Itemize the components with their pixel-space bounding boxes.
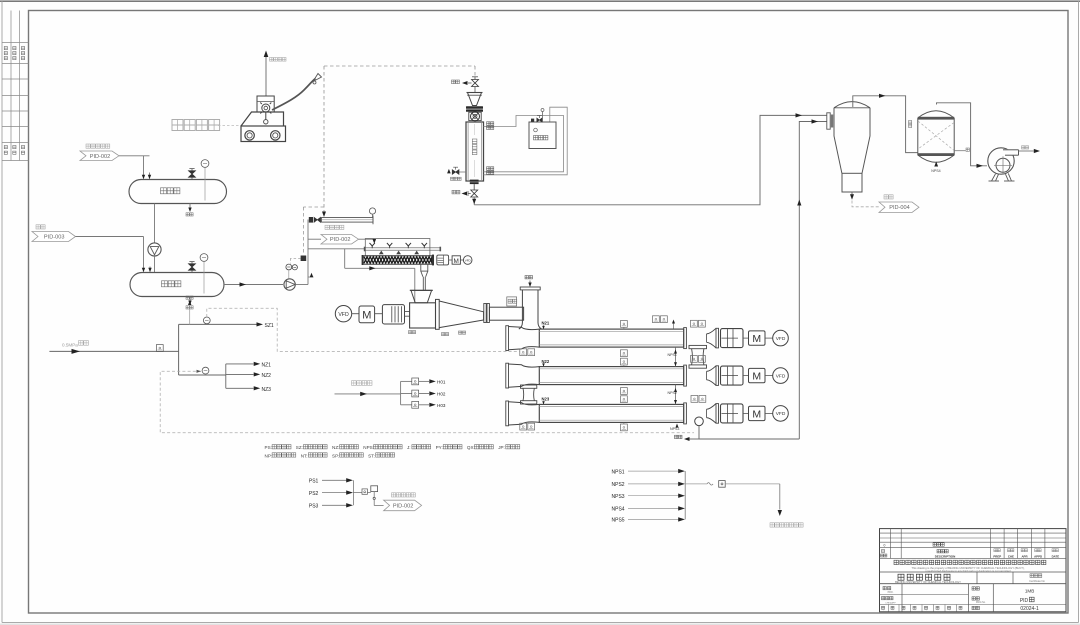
svg-text:CHE: CHE bbox=[1008, 555, 1014, 559]
discharge pipe to riser bbox=[489, 307, 523, 320]
control cabinet bbox=[529, 122, 556, 149]
column vent cluster bbox=[459, 171, 466, 173]
svg-text:VFD: VFD bbox=[776, 411, 786, 417]
V1 drain bbox=[189, 204, 191, 209]
condensate line into vessel V1 bbox=[119, 155, 150, 157]
blow line riser bbox=[521, 290, 523, 323]
boiler branch H01 bbox=[401, 380, 412, 382]
svg-text:ST:: ST: bbox=[368, 453, 375, 458]
extruder drain tags bbox=[409, 331, 412, 334]
svg-text:PID-003: PID-003 bbox=[44, 235, 65, 241]
svg-text:PS2: PS2 bbox=[309, 491, 319, 497]
R2 to R3 connector capsule bbox=[521, 385, 537, 388]
svg-text:QX:: QX: bbox=[467, 445, 475, 450]
flag PID-003 feed bbox=[32, 232, 76, 242]
svg-text:PS3: PS3 bbox=[309, 504, 319, 510]
reactor R3 inlet bell bbox=[509, 402, 540, 405]
cyclone solids outlet bbox=[851, 192, 853, 197]
column outer loop to control box bbox=[484, 107, 568, 175]
title block bottom small cells bbox=[888, 605, 890, 612]
reactor R3 tube bbox=[539, 404, 683, 422]
boiler branch H03 bbox=[401, 404, 412, 406]
R1 left instrument pair bbox=[520, 349, 527, 356]
header support nozzles bbox=[379, 251, 384, 255]
reactor R1 motor M bbox=[749, 331, 766, 345]
svg-text:1MB: 1MB bbox=[1025, 589, 1034, 594]
svg-text:02024-1: 02024-1 bbox=[1020, 606, 1039, 612]
reactor R1 outlet bell bbox=[707, 328, 717, 348]
blowdown line to cyclone bbox=[474, 115, 827, 204]
control box top fittings bbox=[531, 119, 534, 122]
svg-text:M: M bbox=[752, 371, 761, 383]
belt end instrument bbox=[369, 208, 375, 214]
scrubber bottom outlet bbox=[934, 162, 938, 167]
PS logic to flag bbox=[353, 492, 362, 494]
svg-text:VFD: VFD bbox=[465, 259, 472, 263]
R1 vent nozzle bbox=[673, 323, 675, 329]
R3 instrument tags bbox=[691, 396, 698, 403]
svg-text:H03: H03 bbox=[437, 403, 446, 408]
svg-text:NPS5: NPS5 bbox=[612, 518, 625, 524]
V2 level instrument bbox=[203, 261, 205, 294]
svg-text:SZ:: SZ: bbox=[296, 445, 303, 450]
cyclone gas outlet bbox=[853, 96, 918, 153]
extruder feed hopper bbox=[411, 290, 432, 302]
reactor R3 outlet plate bbox=[684, 403, 687, 424]
P2 instruments bbox=[286, 264, 292, 270]
svg-text:PID-002: PID-002 bbox=[90, 154, 111, 160]
reactor R2 motor M bbox=[749, 368, 766, 382]
svg-text:N22: N22 bbox=[542, 359, 550, 364]
svg-text:PY:: PY: bbox=[436, 445, 443, 450]
reactor R1 gearbox bbox=[721, 329, 744, 348]
belt feeder with magnetic separator bbox=[309, 217, 313, 223]
svg-text:PID-004: PID-004 bbox=[889, 205, 910, 211]
scrubber right nozzle bbox=[954, 150, 965, 152]
svg-text:DATE: DATE bbox=[1052, 555, 1060, 559]
svg-text:VFD: VFD bbox=[776, 373, 786, 379]
reactor R2 VFD bbox=[773, 368, 789, 384]
loader cable arm bbox=[272, 79, 316, 111]
R1 to R2 connector capsule bbox=[689, 345, 707, 348]
reactor R2 outlet bell bbox=[707, 366, 717, 386]
svg-text:PRO.: PRO. bbox=[888, 591, 894, 594]
svg-text:VFD: VFD bbox=[776, 336, 786, 342]
dilution water pump P2 bbox=[284, 279, 295, 290]
svg-text:NT:: NT: bbox=[301, 453, 308, 458]
svg-text:M: M bbox=[362, 310, 371, 322]
title block company band bbox=[976, 572, 978, 584]
line from flag to spray chamber bbox=[359, 238, 375, 240]
reactor R3 VFD bbox=[773, 406, 789, 422]
extruder motor M bbox=[359, 306, 375, 323]
V1 top valve bbox=[191, 177, 193, 180]
column steam inlet loop bbox=[484, 116, 564, 172]
instrument signal dashed bbox=[207, 308, 520, 351]
fan outlet bbox=[1019, 150, 1034, 152]
svg-text:NZ3: NZ3 bbox=[262, 387, 272, 393]
truck wheels bbox=[245, 131, 254, 140]
scrubber overhead to fan bbox=[937, 103, 988, 166]
exhaust fan bbox=[988, 148, 1014, 174]
svg-text:N23: N23 bbox=[542, 396, 550, 401]
svg-text:NZ2: NZ2 bbox=[262, 373, 272, 379]
title block property statement bbox=[894, 560, 898, 564]
auger VFD bbox=[463, 256, 472, 265]
reactor R1 VFD bbox=[773, 330, 789, 346]
spray header pipe bbox=[365, 247, 441, 249]
V1 level instrument bbox=[204, 167, 206, 201]
reactor R3 gearbox bbox=[721, 404, 744, 423]
svg-text:NP:: NP: bbox=[265, 453, 273, 458]
spray chamber enclosure bbox=[365, 239, 430, 256]
svg-text:NZ:: NZ: bbox=[332, 445, 339, 450]
svg-text:NPS3: NPS3 bbox=[612, 494, 625, 500]
flag PID-002 interlock bbox=[384, 500, 422, 511]
svg-text:H02: H02 bbox=[437, 392, 446, 397]
svg-text:VFD: VFD bbox=[338, 312, 349, 318]
off-page flag PID-002 condensate bbox=[80, 151, 119, 161]
blow valve bbox=[473, 184, 475, 190]
reactor discharge riser to cyclone bbox=[799, 122, 827, 440]
svg-text:PID-002: PID-002 bbox=[393, 503, 414, 509]
truck loader gear bbox=[262, 104, 270, 112]
column feed hopper bbox=[468, 93, 482, 106]
reactor R2 inlet bell bbox=[509, 364, 540, 367]
feed line into vessel V2 bbox=[76, 236, 144, 238]
steam header tee bbox=[178, 324, 180, 375]
R1 instrument tags bbox=[621, 321, 628, 328]
svg-text:PREP: PREP bbox=[993, 555, 1001, 559]
boiler branch H02 bbox=[401, 393, 412, 395]
dashed solids transport line from truck bbox=[323, 66, 325, 213]
SZ1 branch bbox=[179, 323, 257, 325]
screw conveyor auger bbox=[363, 256, 432, 264]
spray water feed line bbox=[308, 248, 365, 250]
NPS2 condensate nozzle R2-R3 bbox=[675, 385, 677, 405]
svg-text:DESCRIPTION: DESCRIPTION bbox=[935, 554, 956, 558]
svg-text:M: M bbox=[752, 333, 761, 345]
dilution water line to flag bbox=[308, 238, 321, 240]
extruder feed box bbox=[410, 303, 436, 328]
solenoid valve on dashed line bbox=[301, 256, 307, 262]
reactor R2 outlet plate bbox=[684, 365, 687, 386]
extruder VFD bbox=[335, 306, 351, 322]
R3 discharge rotary valve bbox=[695, 417, 704, 426]
svg-text:0.5MPa: 0.5MPa bbox=[62, 342, 78, 347]
extruder cone barrel bbox=[439, 301, 483, 328]
svg-text:SZ1: SZ1 bbox=[265, 323, 274, 329]
svg-text:NPS:: NPS: bbox=[363, 445, 374, 450]
extruder gearbox bbox=[382, 305, 404, 324]
R2 instrument tags bbox=[621, 350, 628, 357]
vessel V2 dilution tank bbox=[130, 273, 224, 297]
reactor R1 tube bbox=[539, 329, 683, 347]
extruder flange plate bbox=[436, 299, 440, 329]
vent arrow to corn field bbox=[265, 56, 267, 96]
svg-text:APPD: APPD bbox=[1034, 555, 1042, 559]
V2 top valve bbox=[191, 270, 193, 273]
branch to extruder feed box bbox=[344, 249, 346, 268]
long dashed signal line bbox=[160, 371, 694, 433]
svg-text:N21: N21 bbox=[542, 320, 550, 325]
svg-text:PID-002: PID-002 bbox=[330, 237, 351, 243]
svg-text:M: M bbox=[454, 258, 459, 265]
vessel V1 storage tank bbox=[129, 180, 227, 204]
reactor R2 gearbox bbox=[721, 366, 744, 385]
dashed branch to weigh valve bbox=[303, 206, 324, 208]
svg-text:APR: APR bbox=[1021, 555, 1028, 559]
auger discharge chute bbox=[421, 264, 428, 271]
column bottom flanges bbox=[470, 180, 479, 182]
svg-text:NPS2: NPS2 bbox=[612, 482, 625, 488]
svg-text:CHK&APP: CHK&APP bbox=[885, 601, 896, 604]
svg-text:NPS1: NPS1 bbox=[612, 469, 625, 475]
svg-text:H01: H01 bbox=[437, 380, 446, 385]
to electric boiler label bbox=[352, 381, 357, 386]
title block lower grid bbox=[901, 584, 903, 612]
auger motor M bbox=[452, 256, 460, 264]
extruder discharge flanges bbox=[484, 304, 486, 323]
transfer pump P1 bbox=[154, 204, 156, 244]
svg-text:Certificate No: Certificate No bbox=[1029, 579, 1045, 583]
riser top steam arrow bbox=[529, 281, 531, 286]
P2 discharge riser bbox=[295, 284, 308, 286]
steam explosion column body bbox=[466, 122, 484, 181]
svg-text:NPS4: NPS4 bbox=[612, 507, 625, 513]
reactor R1 inlet bell bbox=[509, 327, 540, 330]
svg-text:M: M bbox=[752, 408, 761, 420]
svg-text:PS:: PS: bbox=[265, 445, 272, 450]
title block middle cells bbox=[972, 587, 975, 590]
NZ branch bbox=[179, 374, 226, 376]
fan legs bbox=[992, 173, 1012, 181]
NPS collector to condensate header bbox=[685, 483, 707, 485]
svg-text:SP:: SP: bbox=[332, 453, 339, 458]
spray nozzles bbox=[370, 243, 375, 248]
title block header row bbox=[882, 550, 885, 553]
svg-text:0: 0 bbox=[884, 544, 886, 548]
feed isolation valve bbox=[472, 80, 479, 87]
scrubber column bbox=[917, 118, 919, 155]
cyclone inlet flange bbox=[827, 113, 830, 129]
svg-text:PS1: PS1 bbox=[309, 479, 319, 485]
svg-text:NPS4: NPS4 bbox=[931, 169, 940, 173]
svg-text:DWG No.: DWG No. bbox=[976, 602, 986, 604]
svg-text:unauthorized disclosure to any: unauthorized disclosure to any third par… bbox=[925, 569, 1011, 573]
extruder instrument tag bbox=[507, 297, 517, 306]
title block left cells bbox=[883, 587, 886, 590]
svg-text:PID: PID bbox=[1020, 598, 1029, 604]
V2 outlet line bbox=[224, 284, 283, 286]
title block bbox=[880, 529, 1067, 612]
svg-text:BEIJING UNIVERSITY OF CHEMICAL: BEIJING UNIVERSITY OF CHEMICAL TECHNOLOG… bbox=[895, 580, 961, 584]
column top flange stack bbox=[466, 106, 483, 109]
vent stub bbox=[189, 304, 191, 325]
sheet outer border bbox=[0, 0, 1080, 2]
svg-text:J:: J: bbox=[407, 445, 411, 450]
flag PID-004 solids out bbox=[879, 202, 919, 213]
corn stalk delivery truck bbox=[241, 96, 286, 142]
check valve branch bbox=[308, 276, 313, 278]
R3 discharge line bbox=[698, 426, 700, 439]
svg-text:NZ1: NZ1 bbox=[262, 362, 272, 368]
svg-text:JP:: JP: bbox=[498, 445, 505, 450]
cyclone separator bbox=[834, 102, 870, 108]
reactor R3 motor M bbox=[749, 406, 766, 420]
rotary feeder bbox=[469, 112, 481, 120]
V2 drain bbox=[189, 297, 191, 302]
blow line down bbox=[473, 197, 475, 205]
reactor R2 tube bbox=[539, 367, 683, 385]
flag PID-002 dilution water bbox=[321, 235, 359, 245]
reactor R3 outlet bell bbox=[707, 404, 717, 424]
auger gearbox bbox=[437, 255, 449, 265]
reactor R1 outlet plate bbox=[684, 328, 687, 349]
NPS1 condensate nozzle R1-R2 bbox=[675, 347, 677, 367]
corn stalk watermark label bbox=[172, 120, 183, 131]
left revision strip table bbox=[10, 11, 12, 161]
